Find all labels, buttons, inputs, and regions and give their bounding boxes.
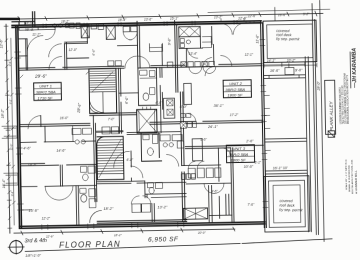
unit3 label dividers <box>226 151 254 157</box>
door arc unit2 inner <box>188 48 198 58</box>
top dimension numbers <box>25 12 310 25</box>
svg-text:by sep. permit: by sep. permit <box>276 37 300 41</box>
svg-text:6'-0": 6'-0" <box>155 101 163 105</box>
architect title block underline <box>349 52 352 88</box>
wall y168.5 unit3 <box>182 164 221 167</box>
kitchen strip B <box>160 135 182 141</box>
kitchen strip A <box>163 98 174 118</box>
left vertical x76 lower <box>76 186 79 226</box>
svg-text:16'-4": 16'-4" <box>2 178 6 188</box>
unit1 kitchen circles <box>75 140 79 144</box>
toilet mid-bottom <box>149 187 154 193</box>
stair-left wall x94 <box>93 115 97 201</box>
wall y151 right <box>185 145 263 148</box>
door arcs unit1 lower pair <box>45 186 73 201</box>
top-right deck note text <box>276 29 300 41</box>
svg-text:12'-1": 12'-1" <box>245 53 254 57</box>
unit3 label text <box>228 146 248 163</box>
unit3 label box <box>226 145 254 163</box>
svg-text:9'-6": 9'-6" <box>211 189 218 193</box>
svg-text:18'-2": 18'-2" <box>1 108 5 118</box>
closet zigzag x204 <box>202 36 211 47</box>
right bridge dim line upper <box>264 62 305 67</box>
left bay window lower <box>4 173 18 185</box>
left wall y187 <box>21 185 97 186</box>
bedroom wall x89 <box>86 26 88 43</box>
svg-text:7'-6": 7'-6" <box>247 203 255 207</box>
corridor bath fixtures left <box>81 166 96 173</box>
north symbol box <box>328 131 335 138</box>
svg-text:W. d.: W. d. <box>25 28 34 32</box>
svg-text:11'-6": 11'-6" <box>255 34 259 44</box>
svg-text:1710 SF: 1710 SF <box>37 95 53 100</box>
hall wall y95 <box>119 92 138 94</box>
wall y183-185 corridor lower <box>97 180 186 184</box>
top dimension ticks <box>18 11 317 21</box>
left dimension numbers <box>0 38 6 188</box>
french doors top pair <box>221 18 244 34</box>
right bridge deck middle <box>265 138 306 142</box>
bottom-right deck mid box <box>268 180 305 227</box>
svg-text:1/8"=1'-0": 1/8"=1'-0" <box>25 254 41 258</box>
svg-text:16'-1" 10': 16'-1" 10' <box>273 166 288 170</box>
lightwell X box bottom <box>183 208 207 219</box>
svg-text:by sep. permit: by sep. permit <box>279 208 303 212</box>
vertical x188 upper <box>185 48 187 67</box>
bottom-right deck outer box <box>264 176 310 232</box>
svg-text:3rd & 4th: 3rd & 4th <box>24 238 46 244</box>
svg-text:12'-6": 12'-6" <box>0 38 3 48</box>
svg-text:14'-1": 14'-1" <box>267 59 277 63</box>
left bay window upper <box>2 126 17 138</box>
pillar pair x207 <box>209 185 213 222</box>
entry wall y39 <box>18 38 27 40</box>
left shelf y210 <box>21 209 31 211</box>
cluster below y125 <box>180 121 196 128</box>
svg-text:SCALE 1/8" = 1'-0" DATE 05.11: SCALE 1/8" = 1'-0" DATE 05.11 <box>345 159 349 190</box>
svg-text:9'-0": 9'-0" <box>295 68 303 72</box>
svg-text:14'-6": 14'-6" <box>56 149 66 153</box>
svg-text:11'-2": 11'-2" <box>32 33 41 37</box>
svg-text:UNIT 1: UNIT 1 <box>39 84 52 89</box>
right bridge deck lower <box>266 170 307 174</box>
window ticks right wall <box>260 39 268 207</box>
door arc unit3 hall <box>166 154 178 166</box>
svg-text:10'-2": 10'-2" <box>287 58 297 62</box>
plank alley label box <box>325 80 336 134</box>
upper stair divider <box>102 92 104 113</box>
svg-text:9'-6": 9'-6" <box>167 37 171 45</box>
elevator X brace <box>137 109 157 133</box>
svg-text:5'-6": 5'-6" <box>200 138 207 142</box>
dark squares unit3 <box>181 174 195 180</box>
bottom tiny dims <box>45 231 207 239</box>
left dimension ticks <box>4 26 12 228</box>
top-right roof deck inner box <box>267 24 313 58</box>
corridor arcs lower <box>113 151 142 178</box>
shaft X braces A <box>81 25 89 38</box>
svg-text:UNIT 2: UNIT 2 <box>229 81 243 86</box>
svg-text:2'-6": 2'-6" <box>245 139 254 143</box>
svg-text:PLANK ALLEY: PLANK ALLEY <box>329 100 335 131</box>
svg-text:18'-4": 18'-4" <box>118 18 127 22</box>
corridor wall x120 <box>118 68 121 133</box>
top-right roof deck outer box <box>263 20 317 62</box>
door arc unit2 south <box>205 67 214 76</box>
svg-text:BOSTON ARCHITECTS MRL 2005: BOSTON ARCHITECTS MRL 2005 <box>351 159 355 194</box>
major vertical wall x140 upper <box>137 21 140 68</box>
unit2 label dividers <box>223 86 251 92</box>
bottom outer wall <box>19 222 264 228</box>
long wall y125 left <box>20 123 90 126</box>
door arc unit3 south <box>222 148 230 156</box>
svg-text:12'-6": 12'-6" <box>248 14 257 18</box>
utility fixtures <box>180 38 184 47</box>
svg-text:12'-2": 12'-2" <box>42 216 51 220</box>
svg-text:12'-0": 12'-0" <box>69 48 78 52</box>
dim 29-6 slashes <box>20 71 89 78</box>
elevator shaft <box>137 109 157 133</box>
corridor vertical x131 lower <box>130 151 133 181</box>
shelf y56 <box>18 55 27 57</box>
closet arcs top-mid <box>123 32 137 40</box>
svg-text:UNIT 3: UNIT 3 <box>232 146 246 151</box>
kitchen island unit3 <box>192 139 202 161</box>
door arc pair lower mid <box>204 183 224 193</box>
bottom-left corridor fixtures <box>108 61 122 66</box>
svg-text:17'-2": 17'-2" <box>230 113 239 117</box>
elevator inner walls <box>139 109 155 133</box>
window ticks bottom wall <box>42 222 184 230</box>
extra room dim texts <box>32 29 257 221</box>
upper stair treads <box>90 71 115 92</box>
svg-text:14'-6": 14'-6" <box>28 163 38 167</box>
entry door arc <box>27 36 43 52</box>
svg-text:18'-2": 18'-2" <box>103 207 113 211</box>
closet door arcs bedrooms <box>131 196 151 204</box>
window ticks top wall right <box>246 21 254 23</box>
X-brace deck braces <box>179 26 201 36</box>
top dimension upper line right <box>208 9 330 12</box>
scan edge artifact top-left <box>0 18 20 21</box>
toilet lower-left <box>81 194 87 202</box>
kitchen strip B circles <box>163 143 167 147</box>
lightwell X braces <box>183 208 207 219</box>
kitchen unit3 arcs <box>188 161 204 168</box>
closet L x151 <box>149 43 162 51</box>
left vertical x45 <box>44 126 46 142</box>
svg-text:6'-6": 6'-6" <box>92 48 96 55</box>
svg-text:29'-6": 29'-6" <box>34 73 47 78</box>
toilet mid <box>147 148 153 156</box>
top-right deck dim line <box>264 63 317 68</box>
pillar pair x226 <box>209 194 232 215</box>
X-brace deck box top unit2 <box>179 26 201 36</box>
upper stair curve <box>89 98 103 112</box>
deck edge stub <box>274 7 276 21</box>
kitchen strip A X-squares <box>167 100 173 116</box>
shaft X box B <box>106 26 115 40</box>
lower stair treads <box>97 140 123 174</box>
right dimension extent line <box>320 0 324 241</box>
left dimension line <box>6 24 10 233</box>
corridor vertical x161 mid <box>160 68 163 133</box>
bedroom divider wall x151 <box>152 204 155 223</box>
top outer wall <box>12 21 261 28</box>
bath lower-left fixtures <box>80 188 96 208</box>
unit1 label box <box>34 82 62 100</box>
big arc bottom-left entry <box>89 211 101 223</box>
wall x231 lower <box>231 148 234 223</box>
bedroom wall y44.5 <box>64 42 87 44</box>
shaft X box A <box>81 25 89 38</box>
title detail circle <box>10 240 23 253</box>
window ticks left wall <box>15 52 24 210</box>
lower stair diagonal <box>98 139 122 177</box>
entry door arc pair unit2 <box>203 55 232 67</box>
svg-text:16'-6": 16'-6" <box>278 13 287 17</box>
bath mid fixtures <box>143 134 158 143</box>
unit1 label dividers <box>34 88 62 94</box>
closet rects top-mid <box>123 26 137 32</box>
svg-text:18'-2": 18'-2" <box>114 233 123 237</box>
svg-text:6'-6": 6'-6" <box>125 96 130 104</box>
wall y134.5 mid <box>96 131 180 135</box>
unit1 label text <box>36 84 56 101</box>
shaft X braces B <box>106 26 115 40</box>
wall y196.5 <box>145 192 186 195</box>
lower mid wall y187 <box>186 182 231 185</box>
bath bottom wall <box>139 104 161 106</box>
kitchen unit3 row <box>188 168 221 178</box>
bottom-right deck inner box <box>273 185 301 223</box>
svg-text:15'-1": 15'-1" <box>170 17 179 21</box>
svg-text:15'-6": 15'-6" <box>28 209 38 213</box>
left vertical x61 <box>60 165 62 186</box>
inner bottom wall bedrooms <box>97 220 186 223</box>
window ticks top wall <box>43 20 237 28</box>
corridor toilet left <box>83 174 89 181</box>
counter fixtures <box>66 23 81 29</box>
svg-text:16'-0": 16'-0" <box>60 116 69 120</box>
burner circles <box>53 24 57 28</box>
alley long verticals <box>304 4 318 235</box>
svg-text:7'-0": 7'-0" <box>108 117 115 121</box>
svg-text:28'-6": 28'-6" <box>77 102 82 114</box>
title underline <box>25 239 332 252</box>
kitchen strip B right rect <box>177 141 184 148</box>
bottom-right deck note <box>279 199 303 212</box>
svg-text:13'-2": 13'-2" <box>214 15 223 19</box>
svg-text:20'-0": 20'-0" <box>197 231 207 235</box>
vertical x214 upper <box>212 26 214 64</box>
right wall stubs <box>264 95 270 150</box>
bedroom wall y200 <box>151 196 186 199</box>
closet strip top-left <box>19 27 55 31</box>
upper stair diagonal <box>92 72 113 92</box>
long wall y125 right <box>150 120 263 124</box>
top dimension line <box>10 13 323 19</box>
svg-text:3BR/2.5BA: 3BR/2.5BA <box>228 152 248 157</box>
closet block bedrooms <box>132 204 151 213</box>
svg-text:36'-1": 36'-1" <box>214 104 224 108</box>
svg-text:9'-2": 9'-2" <box>303 12 310 16</box>
wardrobe scallop B <box>203 67 216 74</box>
upper stair shaft box <box>89 68 117 113</box>
utility box below deck <box>179 36 203 48</box>
left dim slashes <box>5 39 16 220</box>
unit2 label box <box>223 80 251 98</box>
door arc unit2 mid <box>188 113 196 121</box>
svg-text:6'-8": 6'-8" <box>127 158 134 162</box>
living door wall stub <box>40 116 42 127</box>
svg-text:10'-6": 10'-6" <box>244 165 254 169</box>
svg-text:11'-0": 11'-0" <box>9 143 13 151</box>
svg-text:1800 SF: 1800 SF <box>231 157 247 162</box>
svg-text:3BR/2.5BA: 3BR/2.5BA <box>225 87 245 92</box>
bedroom wall x67 <box>64 43 66 70</box>
lower stair shaft box <box>97 136 124 179</box>
utility circle <box>186 40 190 44</box>
bath block right of stairs <box>138 68 157 106</box>
living door arc left <box>28 116 41 129</box>
svg-text:12'-6": 12'-6" <box>238 16 248 20</box>
svg-text:1800 SF: 1800 SF <box>227 93 243 98</box>
hall horizontal y47.5 <box>117 44 137 46</box>
svg-text:16'-6": 16'-6" <box>270 69 280 73</box>
closet door arc Wd <box>45 30 55 40</box>
bottom dimension ticks <box>21 227 235 235</box>
small rects above wall125 <box>181 113 191 117</box>
closet line y59 <box>67 57 89 59</box>
entry door arc pair corridor <box>125 56 150 68</box>
svg-text:13'-2": 13'-2" <box>157 205 167 209</box>
vertical x145 lower <box>145 181 147 198</box>
svg-text:26'-1": 26'-1" <box>207 125 218 129</box>
fixture row X marks <box>181 61 208 67</box>
kitchen island unit2 <box>184 83 192 104</box>
vertical x163 upper <box>161 44 163 65</box>
svg-text:3BR/2.5BA: 3BR/2.5BA <box>36 89 56 94</box>
wardrobe scallop A <box>189 67 202 74</box>
svg-text:DRAWN JK CHECKED MB: DRAWN JK CHECKED MB <box>348 165 351 192</box>
bottom dimension line <box>14 229 235 233</box>
right outer wall <box>261 21 267 228</box>
left wall y166 <box>20 162 96 165</box>
svg-text:—JH KARAMBA: —JH KARAMBA <box>352 47 359 88</box>
title circle cross <box>8 240 24 254</box>
svg-text:5'-1": 5'-1" <box>255 161 262 165</box>
bath mid-bottom fixtures <box>147 182 162 188</box>
left inner dim texts <box>8 60 14 196</box>
svg-text:4'-6": 4'-6" <box>23 146 31 150</box>
right bridge deck upper <box>264 75 305 79</box>
toilet upper <box>143 93 149 101</box>
svg-text:● HAMMER MILL: ● HAMMER MILL <box>354 170 358 194</box>
svg-text:6,950 SF: 6,950 SF <box>148 236 179 244</box>
major vertical wall x182 lower <box>180 92 185 222</box>
left inner dimension line <box>11 38 14 225</box>
left wall y142.5 <box>20 141 96 142</box>
left outer wall <box>16 25 22 228</box>
fixture row above wall unit2 <box>167 61 214 67</box>
hall wall y117 <box>90 113 137 116</box>
svg-text:13'-6": 13'-6" <box>144 17 153 21</box>
small tag box right <box>285 67 294 74</box>
wall x218 lower <box>218 148 219 218</box>
major vertical wall x177 upper <box>175 21 178 93</box>
svg-text:13'-4": 13'-4" <box>189 52 198 56</box>
svg-text:28'-0": 28'-0" <box>317 81 321 92</box>
closet cluster unit1 <box>72 125 92 141</box>
top-left chimney stub <box>12 12 35 27</box>
counter rects mid <box>91 24 104 29</box>
closet above lower stair <box>96 127 123 134</box>
elevator door marks <box>143 107 151 110</box>
main divider wall y70 <box>19 64 262 70</box>
bath block mid x142-159 <box>141 133 162 162</box>
bath fixtures upper <box>140 70 157 95</box>
unit2 label text <box>225 81 245 98</box>
living door arcs pair <box>48 44 61 70</box>
entry wall x28 <box>26 39 28 70</box>
